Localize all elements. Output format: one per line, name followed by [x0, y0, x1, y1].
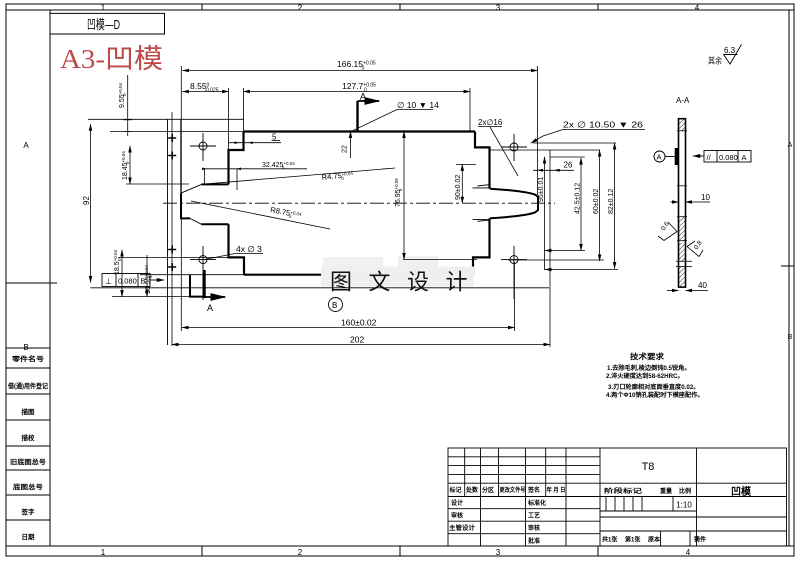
zone tick marks top [201, 4, 203, 10]
svg-text:40: 40 [698, 281, 707, 290]
leader dia10 depth 14 [351, 110, 433, 132]
svg-text:审核: 审核 [528, 524, 540, 532]
svg-text:202: 202 [350, 335, 364, 345]
dim 5 top step [229, 141, 282, 144]
upper-left blade extension lines [168, 119, 181, 345]
svg-text:60±0.02: 60±0.02 [593, 189, 600, 214]
hole marker top-left [190, 133, 216, 161]
leader 4x dia3 [205, 254, 263, 260]
svg-text:⊥: ⊥ [105, 277, 112, 286]
dim 90 vertical small (top right of center) [456, 164, 476, 203]
attachment column labels [7, 354, 48, 541]
svg-text:共1张: 共1张 [602, 536, 618, 544]
svg-text:处数: 处数 [465, 486, 479, 494]
technical requirements block [606, 351, 704, 399]
svg-text:铸件: 铸件 [694, 536, 706, 544]
svg-text:42.5±0.12: 42.5±0.12 [575, 183, 582, 214]
title block texts [449, 486, 707, 545]
svg-text:审核: 审核 [451, 512, 463, 520]
hole marker bottom-right [501, 246, 527, 299]
leader 2xdia16 [478, 127, 518, 177]
svg-text:凹模: 凹模 [731, 485, 752, 498]
svg-text:图文设计: 图文设计 [330, 270, 484, 295]
plate internal lines [676, 131, 692, 267]
section line A bottom [205, 270, 226, 313]
part outline: top-left step [229, 132, 244, 185]
right stacked dim 82 [614, 143, 616, 269]
svg-text:4.两个Φ10销孔装配时下模座配作。: 4.两个Φ10销孔装配时下模座配作。 [606, 391, 704, 399]
part outline: top-right step [475, 132, 490, 189]
dim 18.45 vertical [129, 146, 131, 184]
datum frame perpendicularity 0.080 B [102, 274, 164, 287]
hole marker top-right [501, 134, 527, 161]
dim 32.425 [202, 168, 307, 191]
watermark band 图 文 设 计 [321, 267, 484, 295]
svg-text:2x ∅ 10.50 ▼ 26: 2x ∅ 10.50 ▼ 26 [563, 120, 643, 130]
leader radius R8.75 lower [191, 201, 330, 229]
svg-text:B: B [788, 334, 793, 341]
svg-text:95±0.01: 95±0.01 [538, 177, 545, 202]
svg-text:标准化: 标准化 [527, 499, 546, 507]
svg-text:分区: 分区 [482, 486, 494, 494]
zone tick marks bottom [201, 546, 203, 556]
svg-text:设计: 设计 [451, 499, 463, 507]
svg-text:2x∅16: 2x∅16 [478, 118, 503, 127]
zone numbers bottom [101, 548, 691, 557]
svg-text:10: 10 [701, 193, 710, 202]
view label (B) [329, 298, 343, 312]
dim 10.55 vertical [146, 255, 148, 297]
svg-text:主管设计: 主管设计 [449, 524, 475, 532]
section line A top [358, 92, 380, 132]
svg-text:82±0.12: 82±0.12 [608, 189, 615, 214]
svg-text:日期: 日期 [22, 532, 36, 541]
dim 10 on plate [671, 201, 711, 203]
zone tick right [781, 265, 794, 267]
right lip (spike with flat tip) [490, 189, 538, 219]
svg-text:工艺: 工艺 [528, 512, 540, 520]
zone tick left [6, 282, 57, 284]
roughness 0.6 left [658, 222, 677, 241]
svg-text:签名: 签名 [527, 486, 540, 494]
svg-text:A: A [657, 153, 662, 162]
title block grid [448, 448, 787, 546]
part outline: right side below lip [473, 218, 490, 274]
right stacked dim 60 [599, 150, 601, 261]
hatch bands [679, 119, 685, 287]
part outline: bottom edge [244, 274, 473, 276]
svg-text:4: 4 [695, 4, 700, 13]
svg-text:借(通)用件登记: 借(通)用件登记 [7, 381, 48, 390]
svg-text:T8: T8 [642, 461, 655, 473]
svg-text:160±0.02: 160±0.02 [341, 318, 377, 328]
svg-text:B: B [141, 277, 146, 286]
svg-text:底图总号: 底图总号 [13, 482, 44, 491]
svg-text:∅ 10 ▼ 14: ∅ 10 ▼ 14 [397, 100, 439, 110]
dim 95 vertical right of lip [544, 157, 546, 270]
svg-text:3: 3 [496, 4, 501, 13]
roughness 0.8 right [687, 241, 703, 257]
dim 166.15 top [183, 66, 538, 195]
dim 22 below top edge [350, 132, 352, 159]
part outline: top edge [244, 130, 476, 132]
parallelism frame // 0.080 A [693, 151, 751, 163]
svg-text:A: A [742, 153, 747, 162]
watermark faint blocks [323, 256, 438, 269]
svg-text:92: 92 [82, 196, 91, 205]
svg-text:其余: 其余 [708, 56, 722, 66]
svg-text:签字: 签字 [21, 507, 36, 516]
dim 26 right [533, 157, 585, 172]
svg-text:3.刃口轮廓相对底面垂直度0.02。: 3.刃口轮廓相对底面垂直度0.02。 [608, 383, 699, 391]
dim 18.5 vertical [121, 250, 123, 297]
zone numbers top [101, 4, 700, 13]
svg-text:旧底图总号: 旧底图总号 [10, 457, 47, 466]
svg-text:阶段标记: 阶段标记 [604, 487, 642, 495]
svg-text:描图: 描图 [22, 407, 36, 416]
svg-text:A-A: A-A [676, 96, 690, 105]
svg-text:凹模—D: 凹模—D [87, 17, 120, 32]
svg-text:1: 1 [101, 4, 106, 13]
svg-text:1: 1 [101, 548, 106, 557]
svg-text:第1张: 第1张 [624, 536, 641, 544]
attachment column rows (left margin) [6, 348, 50, 520]
zone letters right [788, 142, 793, 341]
svg-text:5: 5 [272, 133, 277, 142]
datum A circle and tab [654, 148, 679, 165]
svg-text:年 月 日: 年 月 日 [547, 486, 566, 494]
svg-text:90±0.02: 90±0.02 [455, 175, 462, 200]
dim 40 bottom of plate [667, 290, 708, 292]
svg-text:26: 26 [564, 161, 573, 170]
dim 8.55 top [183, 88, 244, 150]
svg-text:标记: 标记 [449, 486, 462, 494]
svg-text:更改文件号: 更改文件号 [500, 486, 526, 494]
svg-text:0.080: 0.080 [719, 153, 738, 162]
svg-text:3: 3 [496, 548, 501, 557]
dim 160 bottom [182, 327, 514, 329]
svg-text:22: 22 [342, 145, 349, 153]
svg-text:1.去除毛刺,棱边倒钝0.5锐角。: 1.去除毛刺,棱边倒钝0.5锐角。 [607, 364, 691, 372]
svg-text:2.淬火硬度达到58-62HRC。: 2.淬火硬度达到58-62HRC。 [606, 372, 684, 380]
svg-text:重量: 重量 [660, 487, 672, 495]
svg-text:0.080: 0.080 [118, 277, 137, 286]
general roughness note top right [708, 46, 736, 66]
svg-text:4: 4 [686, 548, 691, 557]
svg-text:A: A [788, 142, 793, 149]
svg-text:4x ∅ 3: 4x ∅ 3 [236, 244, 262, 254]
dim 127.7 top [244, 88, 471, 131]
dim 9.55 vertical [124, 75, 132, 136]
leader radius R4.75 upper [202, 168, 395, 184]
zone letters left [23, 141, 29, 352]
svg-text:B: B [23, 343, 28, 352]
part outline: left lip [181, 184, 229, 224]
svg-text:技术要求: 技术要求 [630, 351, 665, 361]
right stacked dim 42.5 [580, 158, 582, 251]
svg-text:B: B [332, 301, 337, 310]
dim 202 bottom [172, 344, 550, 346]
svg-text:零件名号: 零件名号 [11, 354, 45, 363]
svg-text:描校: 描校 [22, 433, 36, 442]
main horizontal centerline [163, 202, 555, 204]
svg-text:A: A [207, 303, 213, 313]
svg-text:2: 2 [298, 548, 303, 557]
leader 2x dia10.50 depth 26 [531, 130, 645, 144]
top-left document number box [50, 13, 165, 34]
dim 92 vertical [90, 124, 92, 282]
svg-text:原本: 原本 [648, 536, 661, 544]
hole marker bottom-left [190, 246, 216, 300]
section plate outline [679, 119, 686, 287]
extension lines right side [91, 143, 619, 347]
part outline: left side below lip [229, 224, 245, 274]
part outline: bottom tongue [190, 275, 204, 297]
svg-text:A3-凹模: A3-凹模 [60, 44, 163, 74]
svg-text:批准: 批准 [528, 537, 540, 545]
svg-text:A: A [23, 141, 29, 150]
svg-text:6.3: 6.3 [724, 46, 736, 55]
extension lines left side [88, 66, 244, 346]
inner frame lines [6, 9, 794, 11]
dim 76.95 vertical center [403, 132, 405, 260]
svg-text:2: 2 [298, 4, 303, 13]
small cross markers on left slot [168, 134, 176, 271]
svg-text:比例: 比例 [679, 487, 691, 495]
roughness check symbol [724, 45, 742, 65]
svg-text:1:10: 1:10 [676, 501, 692, 510]
